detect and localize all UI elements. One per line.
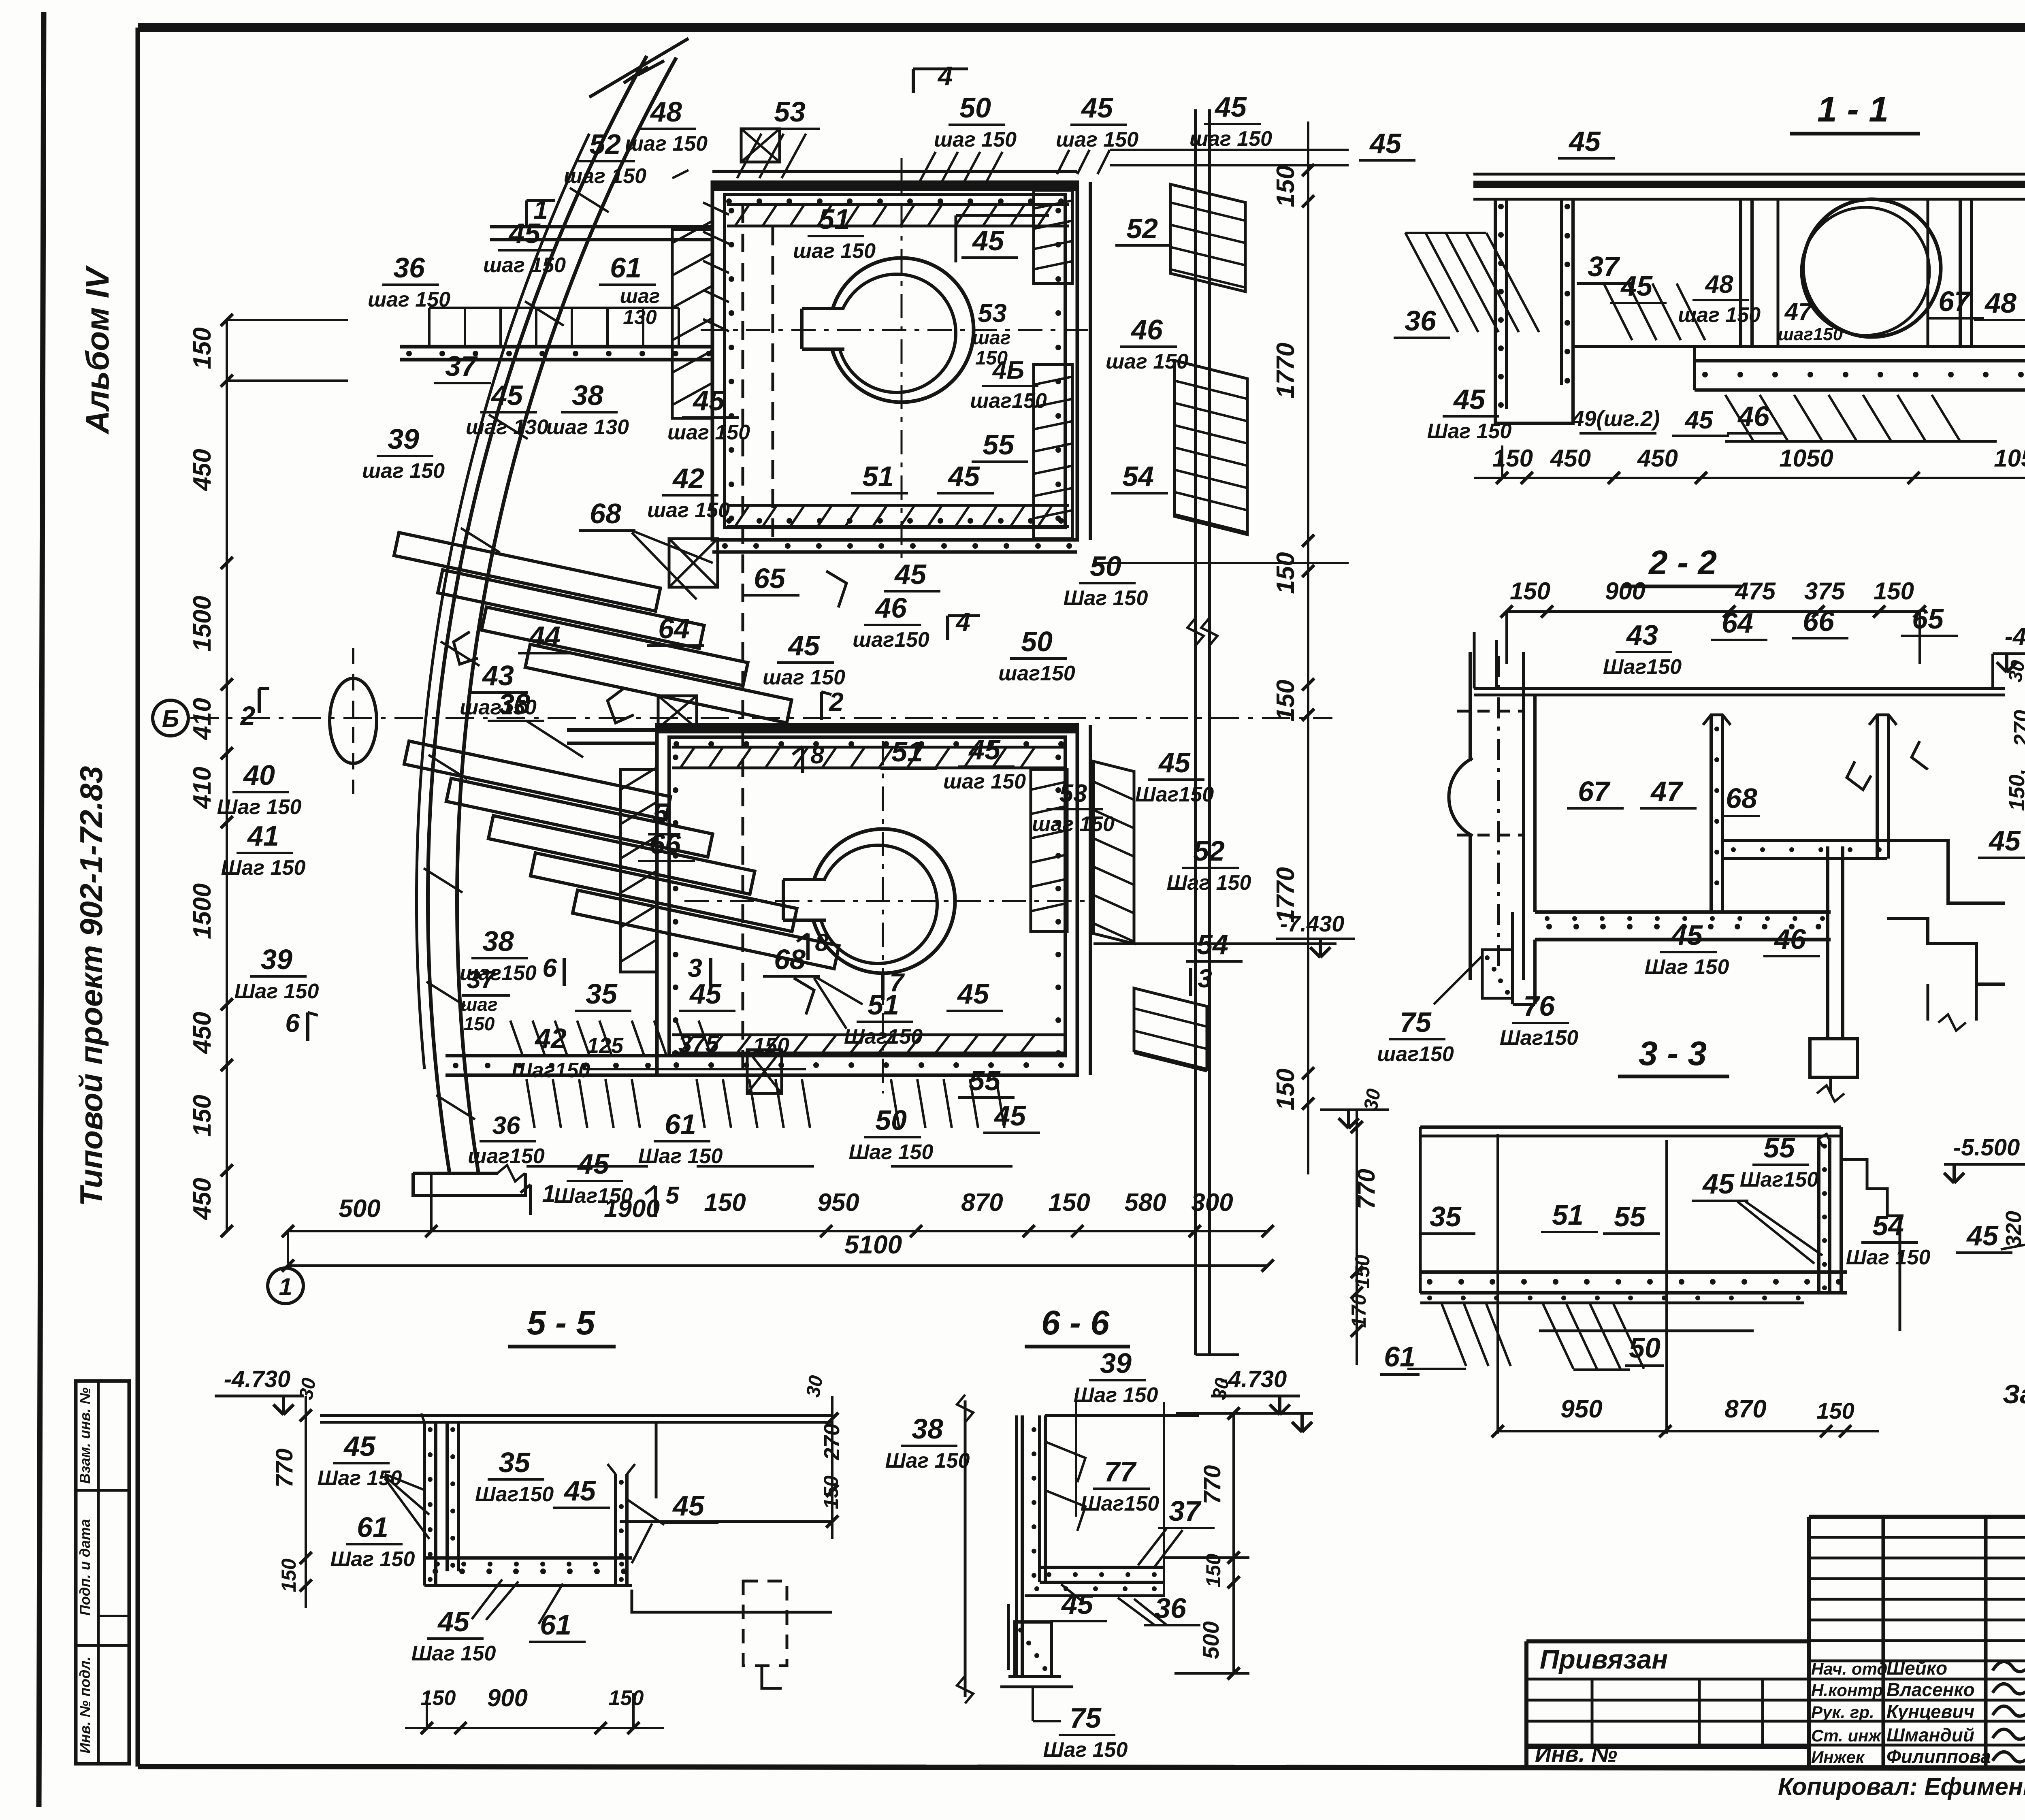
svg-text:45: 45 bbox=[689, 978, 722, 1010]
svg-text:50: 50 bbox=[875, 1104, 907, 1136]
svg-text:Шаг150: Шаг150 bbox=[475, 1483, 554, 1506]
svg-text:39: 39 bbox=[1100, 1347, 1132, 1379]
svg-text:Шаг 150: Шаг 150 bbox=[217, 795, 302, 819]
svg-text:1: 1 bbox=[542, 1180, 555, 1207]
svg-text:51: 51 bbox=[1552, 1199, 1584, 1231]
svg-text:Б: Б bbox=[162, 705, 179, 732]
svg-text:-4.730: -4.730 bbox=[224, 1366, 290, 1392]
svg-text:51: 51 bbox=[819, 203, 850, 235]
svg-text:шаг 150: шаг 150 bbox=[1056, 128, 1138, 151]
svg-text:67: 67 bbox=[1578, 776, 1611, 807]
svg-text:52: 52 bbox=[589, 128, 621, 160]
svg-text:45: 45 bbox=[1620, 270, 1653, 302]
svg-text:1500: 1500 bbox=[188, 596, 216, 652]
svg-text:Шаг150: Шаг150 bbox=[1500, 1026, 1578, 1050]
svg-text:30: 30 bbox=[802, 1374, 827, 1399]
svg-text:500: 500 bbox=[1198, 1621, 1224, 1659]
svg-text:шаг150: шаг150 bbox=[853, 628, 929, 652]
svg-text:37: 37 bbox=[467, 966, 496, 994]
svg-text:Шаг150: Шаг150 bbox=[512, 1059, 590, 1082]
svg-text:Шаг 150: Шаг 150 bbox=[849, 1140, 934, 1164]
svg-text:61: 61 bbox=[1384, 1341, 1415, 1372]
svg-text:150: 150 bbox=[188, 327, 216, 369]
svg-text:39: 39 bbox=[388, 423, 419, 455]
svg-text:53: 53 bbox=[978, 298, 1006, 328]
svg-text:150: 150 bbox=[1048, 1189, 1090, 1217]
svg-text:125: 125 bbox=[587, 1034, 624, 1058]
svg-text:76: 76 bbox=[1523, 990, 1555, 1022]
svg-text:-5.500: -5.500 bbox=[1953, 1134, 2020, 1161]
svg-text:47: 47 bbox=[1650, 776, 1684, 807]
svg-text:54: 54 bbox=[1872, 1210, 1904, 1241]
svg-text:Шаг 150: Шаг 150 bbox=[885, 1449, 970, 1473]
svg-text:320: 320 bbox=[2002, 1211, 2025, 1247]
svg-text:шаг 150: шаг 150 bbox=[1106, 350, 1188, 373]
svg-text:45: 45 bbox=[957, 978, 989, 1010]
svg-text:6 - 6: 6 - 6 bbox=[1041, 1304, 1110, 1342]
svg-text:47: 47 bbox=[1784, 298, 1813, 325]
svg-text:Ст. инж: Ст. инж bbox=[1811, 1726, 1882, 1745]
svg-text:1: 1 bbox=[279, 1273, 292, 1300]
svg-text:870: 870 bbox=[961, 1189, 1003, 1217]
svg-text:45: 45 bbox=[1568, 126, 1601, 157]
svg-text:150: 150 bbox=[464, 1013, 495, 1034]
svg-text:150,: 150, bbox=[2005, 768, 2025, 811]
svg-text:41: 41 bbox=[247, 820, 279, 852]
svg-text:45: 45 bbox=[1966, 1220, 1999, 1251]
svg-text:8: 8 bbox=[815, 929, 829, 956]
svg-text:45: 45 bbox=[1369, 128, 1402, 159]
svg-text:475: 475 bbox=[1735, 578, 1776, 605]
svg-text:54: 54 bbox=[1197, 929, 1228, 960]
svg-text:35: 35 bbox=[499, 1447, 531, 1478]
svg-text:45: 45 bbox=[1081, 92, 1113, 124]
svg-text:150: 150 bbox=[1272, 1068, 1300, 1110]
svg-text:38: 38 bbox=[912, 1413, 943, 1445]
svg-text:150: 150 bbox=[1272, 680, 1300, 721]
svg-text:42: 42 bbox=[672, 462, 704, 494]
svg-text:шаг 150: шаг 150 bbox=[362, 459, 445, 483]
svg-text:30: 30 bbox=[295, 1376, 320, 1401]
svg-text:500: 500 bbox=[339, 1195, 380, 1223]
svg-text:37: 37 bbox=[445, 350, 478, 382]
svg-text:51: 51 bbox=[862, 460, 894, 492]
svg-text:шаг 150: шаг 150 bbox=[943, 770, 1026, 793]
svg-text:450: 450 bbox=[188, 1178, 216, 1220]
svg-text:375: 375 bbox=[1804, 578, 1846, 605]
svg-text:Шаг 150: Шаг 150 bbox=[234, 980, 319, 1003]
svg-text:Шаг150: Шаг150 bbox=[1603, 655, 1682, 679]
svg-text:770: 770 bbox=[1199, 1465, 1226, 1505]
svg-text:150: 150 bbox=[1272, 552, 1300, 594]
svg-text:Инжек: Инжек bbox=[1811, 1748, 1865, 1767]
svg-text:900: 900 bbox=[1605, 578, 1646, 605]
svg-text:Защитный слой бетона для р: Защитный слой бетона для рабочей арма- bbox=[2003, 1379, 2025, 1409]
svg-text:5: 5 bbox=[665, 1182, 680, 1209]
svg-text:Привязан: Привязан bbox=[1540, 1644, 1668, 1674]
svg-text:Альбом IV: Альбом IV bbox=[79, 265, 115, 435]
svg-text:1770: 1770 bbox=[1272, 343, 1300, 399]
svg-text:130: 130 bbox=[623, 306, 657, 328]
svg-text:шаг 150: шаг 150 bbox=[667, 421, 750, 444]
svg-text:Шаг150: Шаг150 bbox=[554, 1184, 633, 1208]
svg-text:Шаг150: Шаг150 bbox=[1081, 1492, 1159, 1515]
svg-text:870: 870 bbox=[1724, 1395, 1766, 1423]
svg-text:45: 45 bbox=[437, 1606, 470, 1637]
svg-text:51: 51 bbox=[868, 989, 899, 1021]
svg-text:Н.контр: Н.контр bbox=[1811, 1681, 1883, 1700]
svg-text:Шаг 150: Шаг 150 bbox=[1846, 1246, 1931, 1269]
svg-text:77: 77 bbox=[1104, 1456, 1137, 1488]
svg-text:52: 52 bbox=[1193, 835, 1225, 867]
svg-text:66: 66 bbox=[1803, 605, 1835, 637]
svg-text:150: 150 bbox=[1492, 445, 1533, 472]
svg-text:Взам. инв. №: Взам. инв. № bbox=[77, 1387, 93, 1484]
svg-text:Копировал: Ефименко: Копировал: Ефименко bbox=[1778, 1773, 2025, 1800]
svg-text:48: 48 bbox=[650, 96, 682, 128]
svg-text:45: 45 bbox=[577, 1148, 610, 1180]
svg-text:45: 45 bbox=[1158, 747, 1191, 778]
svg-text:Шейко: Шейко bbox=[1886, 1658, 1947, 1679]
svg-text:75: 75 bbox=[1400, 1006, 1432, 1038]
svg-text:шаг: шаг bbox=[620, 285, 660, 307]
svg-text:51: 51 bbox=[891, 736, 923, 767]
svg-text:36: 36 bbox=[393, 252, 425, 283]
svg-text:53: 53 bbox=[1059, 780, 1087, 808]
svg-text:1050: 1050 bbox=[1779, 445, 1833, 472]
svg-text:950: 950 bbox=[817, 1189, 859, 1217]
svg-text:45: 45 bbox=[343, 1430, 376, 1462]
svg-text:770: 770 bbox=[271, 1449, 298, 1488]
svg-text:Кунцевич: Кунцевич bbox=[1886, 1701, 1974, 1722]
svg-text:1500: 1500 bbox=[188, 883, 216, 939]
svg-text:Нач. отд: Нач. отд bbox=[1811, 1659, 1887, 1678]
svg-text:45: 45 bbox=[894, 558, 927, 590]
svg-text:45: 45 bbox=[1670, 919, 1703, 951]
svg-text:6: 6 bbox=[542, 953, 557, 982]
svg-text:64: 64 bbox=[1722, 607, 1753, 639]
svg-text:45: 45 bbox=[947, 460, 980, 492]
svg-text:Шаг 150: Шаг 150 bbox=[1167, 871, 1251, 895]
svg-text:6: 6 bbox=[285, 1008, 300, 1038]
svg-text:64: 64 bbox=[658, 613, 690, 644]
svg-text:45: 45 bbox=[1453, 384, 1486, 415]
svg-text:шаг150: шаг150 bbox=[970, 389, 1047, 413]
svg-text:Шаг 150: Шаг 150 bbox=[330, 1547, 415, 1571]
svg-text:67: 67 bbox=[1938, 286, 1971, 317]
svg-text:61: 61 bbox=[610, 252, 642, 283]
svg-text:450: 450 bbox=[1550, 445, 1591, 472]
svg-text:900: 900 bbox=[487, 1684, 528, 1711]
svg-text:450: 450 bbox=[1637, 445, 1678, 472]
svg-text:шаг 150: шаг 150 bbox=[793, 239, 876, 263]
svg-text:65: 65 bbox=[754, 563, 786, 594]
svg-text:38: 38 bbox=[482, 925, 514, 957]
svg-text:68: 68 bbox=[590, 498, 621, 529]
svg-text:46: 46 bbox=[1773, 923, 1806, 955]
svg-text:36: 36 bbox=[1405, 305, 1437, 337]
svg-text:30: 30 bbox=[1209, 1376, 1234, 1401]
svg-text:45: 45 bbox=[787, 630, 820, 661]
svg-text:Шаг 150: Шаг 150 bbox=[1064, 586, 1148, 610]
svg-text:450: 450 bbox=[188, 449, 216, 491]
svg-text:45: 45 bbox=[490, 379, 523, 411]
svg-text:61: 61 bbox=[665, 1108, 696, 1140]
svg-text:-4.730: -4.730 bbox=[2005, 623, 2025, 650]
svg-text:шаг 150: шаг 150 bbox=[1678, 303, 1761, 327]
svg-text:шаг: шаг bbox=[972, 327, 1011, 349]
svg-text:шаг150: шаг150 bbox=[998, 662, 1075, 685]
svg-text:37: 37 bbox=[1588, 251, 1620, 282]
svg-text:Шаг150: Шаг150 bbox=[844, 1025, 923, 1049]
svg-text:48: 48 bbox=[1705, 271, 1733, 298]
svg-text:шаг 150: шаг 150 bbox=[763, 666, 845, 689]
svg-text:50: 50 bbox=[1021, 626, 1053, 657]
svg-text:шаг150: шаг150 bbox=[1778, 324, 1843, 344]
svg-text:4: 4 bbox=[955, 607, 970, 637]
svg-text:Инв. № подл.: Инв. № подл. bbox=[77, 1656, 93, 1753]
svg-text:75: 75 bbox=[1070, 1702, 1102, 1734]
svg-text:38: 38 bbox=[572, 379, 603, 411]
svg-text:48: 48 bbox=[1984, 287, 2016, 319]
svg-text:2 - 2: 2 - 2 bbox=[1648, 543, 1717, 582]
svg-text:шаг 150: шаг 150 bbox=[647, 499, 730, 522]
svg-text:Шаг 150: Шаг 150 bbox=[221, 856, 306, 880]
svg-text:45: 45 bbox=[1684, 406, 1714, 434]
svg-text:43: 43 bbox=[482, 660, 514, 691]
svg-text:шаг 150: шаг 150 bbox=[1032, 812, 1115, 836]
svg-text:50: 50 bbox=[1629, 1332, 1660, 1364]
svg-text:8: 8 bbox=[810, 742, 824, 769]
svg-text:68: 68 bbox=[774, 944, 806, 975]
svg-text:46: 46 bbox=[1737, 401, 1770, 432]
svg-text:шаг 150: шаг 150 bbox=[483, 254, 566, 277]
svg-text:410: 410 bbox=[188, 698, 216, 740]
svg-text:4Б: 4Б bbox=[992, 356, 1024, 384]
svg-text:2: 2 bbox=[240, 701, 256, 731]
svg-text:3 - 3: 3 - 3 bbox=[1639, 1034, 1707, 1072]
svg-text:шаг150: шаг150 bbox=[1377, 1042, 1454, 1066]
svg-text:55: 55 bbox=[983, 429, 1015, 460]
svg-text:375: 375 bbox=[678, 1030, 720, 1057]
svg-text:45: 45 bbox=[993, 1100, 1026, 1132]
svg-text:шаг 130: шаг 130 bbox=[466, 416, 548, 439]
svg-text:950: 950 bbox=[1560, 1395, 1602, 1423]
svg-text:150: 150 bbox=[1351, 1255, 1374, 1289]
svg-text:45: 45 bbox=[1702, 1168, 1735, 1200]
svg-text:42: 42 bbox=[534, 1023, 567, 1054]
svg-text:Власенко: Власенко bbox=[1886, 1679, 1975, 1700]
svg-text:150: 150 bbox=[188, 1095, 216, 1136]
svg-text:35: 35 bbox=[1430, 1201, 1462, 1232]
svg-text:150: 150 bbox=[1816, 1398, 1854, 1424]
svg-text:36: 36 bbox=[492, 1112, 520, 1140]
svg-text:46: 46 bbox=[1130, 314, 1163, 345]
svg-text:Рук. гр.: Рук. гр. bbox=[1811, 1703, 1874, 1722]
svg-text:38: 38 bbox=[499, 688, 530, 720]
svg-text:45: 45 bbox=[692, 385, 725, 416]
svg-text:50: 50 bbox=[1090, 550, 1121, 582]
svg-text:150: 150 bbox=[1510, 578, 1550, 605]
svg-text:45: 45 bbox=[972, 225, 1004, 256]
svg-text:Шаг 150: Шаг 150 bbox=[1074, 1383, 1158, 1407]
svg-text:45: 45 bbox=[1214, 91, 1247, 123]
svg-text:45: 45 bbox=[672, 1490, 705, 1522]
svg-text:49(шг.2): 49(шг.2) bbox=[1571, 407, 1660, 431]
svg-text:52: 52 bbox=[1126, 213, 1158, 244]
svg-text:Шаг150: Шаг150 bbox=[1135, 783, 1214, 806]
svg-text:300: 300 bbox=[1191, 1189, 1233, 1217]
svg-text:150: 150 bbox=[1272, 165, 1300, 207]
svg-text:45: 45 bbox=[563, 1475, 596, 1507]
svg-text:410: 410 bbox=[188, 767, 216, 809]
svg-text:150: 150 bbox=[753, 1034, 789, 1058]
svg-text:Шаг 150: Шаг 150 bbox=[1645, 955, 1729, 979]
svg-text:55: 55 bbox=[969, 1065, 1001, 1096]
svg-text:Шаг150: Шаг150 bbox=[1740, 1168, 1818, 1191]
svg-text:Подп. и дата: Подп. и дата bbox=[77, 1519, 93, 1615]
svg-text:5 - 5: 5 - 5 bbox=[527, 1304, 595, 1342]
svg-text:270: 270 bbox=[2010, 710, 2025, 747]
svg-text:шаг 150: шаг 150 bbox=[368, 288, 450, 311]
svg-text:39: 39 bbox=[261, 944, 292, 975]
svg-text:45: 45 bbox=[508, 217, 541, 249]
svg-text:170: 170 bbox=[1347, 1294, 1370, 1328]
svg-text:55: 55 bbox=[1763, 1132, 1795, 1164]
svg-text:Шаг 150: Шаг 150 bbox=[638, 1144, 723, 1168]
svg-text:45: 45 bbox=[1061, 1588, 1093, 1620]
svg-text:Типовой проект 902-1-72.83: Типовой проект 902-1-72.83 bbox=[73, 766, 109, 1206]
svg-text:Филиппова: Филиппова bbox=[1886, 1746, 1991, 1767]
svg-text:шаг: шаг bbox=[460, 994, 497, 1015]
svg-text:66: 66 bbox=[649, 828, 681, 860]
svg-text:Инв. №: Инв. № bbox=[1535, 1741, 1617, 1767]
svg-text:450: 450 bbox=[188, 1012, 216, 1054]
svg-text:шаг 130: шаг 130 bbox=[546, 416, 629, 439]
svg-text:580: 580 bbox=[1124, 1189, 1166, 1217]
svg-text:1050: 1050 bbox=[1994, 445, 2025, 472]
svg-text:150: 150 bbox=[277, 1558, 300, 1592]
svg-text:40: 40 bbox=[243, 759, 275, 791]
svg-text:шаг 150: шаг 150 bbox=[934, 128, 1017, 151]
svg-text:61: 61 bbox=[357, 1511, 388, 1543]
svg-text:43: 43 bbox=[1626, 619, 1658, 651]
svg-text:1 - 1: 1 - 1 bbox=[1817, 89, 1889, 129]
svg-text:4: 4 bbox=[937, 61, 953, 91]
svg-text:44: 44 bbox=[528, 620, 561, 652]
svg-text:150: 150 bbox=[704, 1189, 746, 1217]
svg-text:шаг150: шаг150 bbox=[468, 1144, 545, 1168]
svg-text:45: 45 bbox=[968, 734, 1001, 765]
svg-text:65: 65 bbox=[1912, 603, 1944, 635]
svg-text:30: 30 bbox=[1360, 1087, 1385, 1112]
svg-text:Шаг 150: Шаг 150 bbox=[1043, 1738, 1128, 1762]
svg-text:30: 30 bbox=[2004, 659, 2025, 684]
svg-text:2: 2 bbox=[829, 687, 844, 716]
svg-text:50: 50 bbox=[959, 92, 991, 124]
svg-text:46: 46 bbox=[874, 592, 907, 624]
svg-text:Шаг 150: Шаг 150 bbox=[318, 1466, 402, 1490]
svg-text:5100: 5100 bbox=[844, 1230, 902, 1259]
svg-text:шаг 150: шаг 150 bbox=[1189, 127, 1272, 151]
svg-text:45: 45 bbox=[1988, 825, 2021, 857]
svg-text:шаг 150: шаг 150 bbox=[564, 164, 646, 188]
svg-text:3: 3 bbox=[1198, 964, 1212, 993]
svg-text:150: 150 bbox=[609, 1686, 644, 1710]
svg-text:Шаг 150: Шаг 150 bbox=[411, 1642, 496, 1665]
svg-text:55: 55 bbox=[1614, 1201, 1646, 1232]
svg-text:35: 35 bbox=[586, 978, 618, 1010]
svg-text:Шмандий: Шмандий bbox=[1886, 1724, 1974, 1745]
svg-text:шаг 150: шаг 150 bbox=[625, 132, 708, 156]
svg-text:Шаг 150: Шаг 150 bbox=[1427, 420, 1512, 443]
svg-text:37: 37 bbox=[1169, 1495, 1202, 1527]
svg-text:-7.430: -7.430 bbox=[1280, 911, 1345, 936]
svg-text:53: 53 bbox=[774, 96, 806, 128]
svg-text:54: 54 bbox=[1122, 460, 1154, 492]
svg-text:150: 150 bbox=[1874, 578, 1914, 605]
svg-text:68: 68 bbox=[1726, 782, 1757, 814]
svg-text:5: 5 bbox=[653, 797, 669, 829]
